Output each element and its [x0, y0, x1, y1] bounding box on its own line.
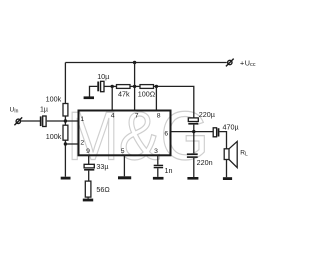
capacitor C6 33µ — [84, 164, 94, 170]
capacitor C1 1µ — [40, 116, 46, 127]
svg-text:5: 5 — [121, 148, 125, 155]
junction pin7 node — [133, 85, 136, 88]
svg-text:220n: 220n — [197, 158, 213, 167]
ground (R2 leg) — [61, 177, 71, 180]
svg-text:100k: 100k — [46, 132, 62, 141]
ground (speaker) — [223, 177, 232, 180]
resistor R4 100Ω — [140, 85, 154, 89]
capacitor C2 10µ — [97, 81, 104, 91]
wire C2 to R3 — [104, 85, 116, 87]
junction supply/pin7 node — [133, 61, 136, 64]
wire speaker to ground — [226, 160, 228, 178]
capacitor C5 220n — [187, 153, 198, 158]
wire C1 to node A — [47, 120, 78, 122]
junction pin2 node — [64, 142, 67, 145]
op-amp IC U1 — [79, 111, 171, 156]
wire C3 to pin6 node — [193, 125, 195, 154]
svg-text:RL: RL — [240, 150, 248, 158]
ground (C7) — [153, 177, 164, 180]
svg-text:1n: 1n — [165, 166, 173, 175]
wire C4 to speaker — [219, 132, 226, 149]
wire pin9 stub — [88, 155, 90, 164]
speaker RL — [224, 141, 237, 167]
svg-text:UIn: UIn — [10, 107, 19, 115]
junction pin6 node — [192, 130, 195, 133]
wire pin4 stub — [111, 86, 113, 110]
svg-text:8: 8 — [157, 112, 161, 119]
wire pin6 to C4 — [171, 131, 213, 133]
wire pin5 stub to ground — [123, 155, 125, 176]
wire pin2 stub — [65, 143, 78, 145]
wire R3 to R4 — [130, 85, 140, 87]
junction pin4 node — [111, 85, 114, 88]
ground (pin5) — [118, 176, 131, 179]
svg-text:220µ: 220µ — [199, 110, 215, 119]
resistor R2 100k (lower) — [63, 125, 68, 140]
wire input terminal to C1 — [21, 120, 40, 122]
svg-text:1: 1 — [80, 116, 84, 123]
wire R1 to R2 — [64, 116, 66, 125]
wire pin3 stub — [157, 155, 159, 164]
node A junction (input / R1 / R2 / pin1) — [64, 119, 67, 122]
wire supply rail (+Ucc) — [65, 62, 226, 64]
wire R4 to C3 drop — [154, 86, 194, 118]
wire C5 to ground — [193, 158, 195, 177]
ground (C2 10µ) — [84, 96, 94, 99]
ground (R5) — [83, 199, 93, 202]
wire pin7 stub (from supply rail) — [134, 63, 136, 111]
svg-text:470µ: 470µ — [223, 122, 239, 131]
resistor R1 100k (upper) — [63, 104, 68, 117]
svg-text:100Ω: 100Ω — [138, 90, 156, 99]
svg-text:4: 4 — [111, 112, 115, 119]
svg-text:56Ω: 56Ω — [96, 185, 110, 194]
wire supply drop to R1 — [64, 63, 66, 104]
terminal UIn (input) — [14, 117, 22, 125]
svg-text:10µ: 10µ — [97, 72, 109, 81]
wire C6 to R5 — [88, 171, 90, 182]
svg-text:1µ: 1µ — [40, 107, 48, 114]
wire R2 to ground — [64, 140, 66, 177]
capacitor C7 1n — [154, 165, 163, 169]
svg-text:6: 6 — [164, 130, 168, 137]
wire C7 to ground — [157, 168, 159, 177]
svg-text:3: 3 — [154, 148, 158, 155]
resistor R5 56Ω — [85, 181, 91, 197]
svg-text:47k: 47k — [118, 89, 130, 98]
wire R5 to ground — [87, 197, 89, 199]
svg-text:33µ: 33µ — [96, 162, 108, 171]
junction pin8 node — [155, 85, 158, 88]
terminal +Ucc — [226, 59, 234, 67]
capacitor C3 220µ — [188, 118, 198, 125]
svg-text:100k: 100k — [46, 94, 62, 103]
svg-text:2: 2 — [80, 139, 84, 146]
wire pin8 stub — [155, 86, 157, 110]
wire ground to C2 — [90, 86, 98, 96]
capacitor C4 470µ — [213, 128, 219, 137]
svg-text:9: 9 — [86, 148, 90, 155]
svg-text:7: 7 — [135, 112, 139, 119]
ground (C5) — [187, 177, 198, 180]
resistor R3 47k — [117, 85, 131, 89]
